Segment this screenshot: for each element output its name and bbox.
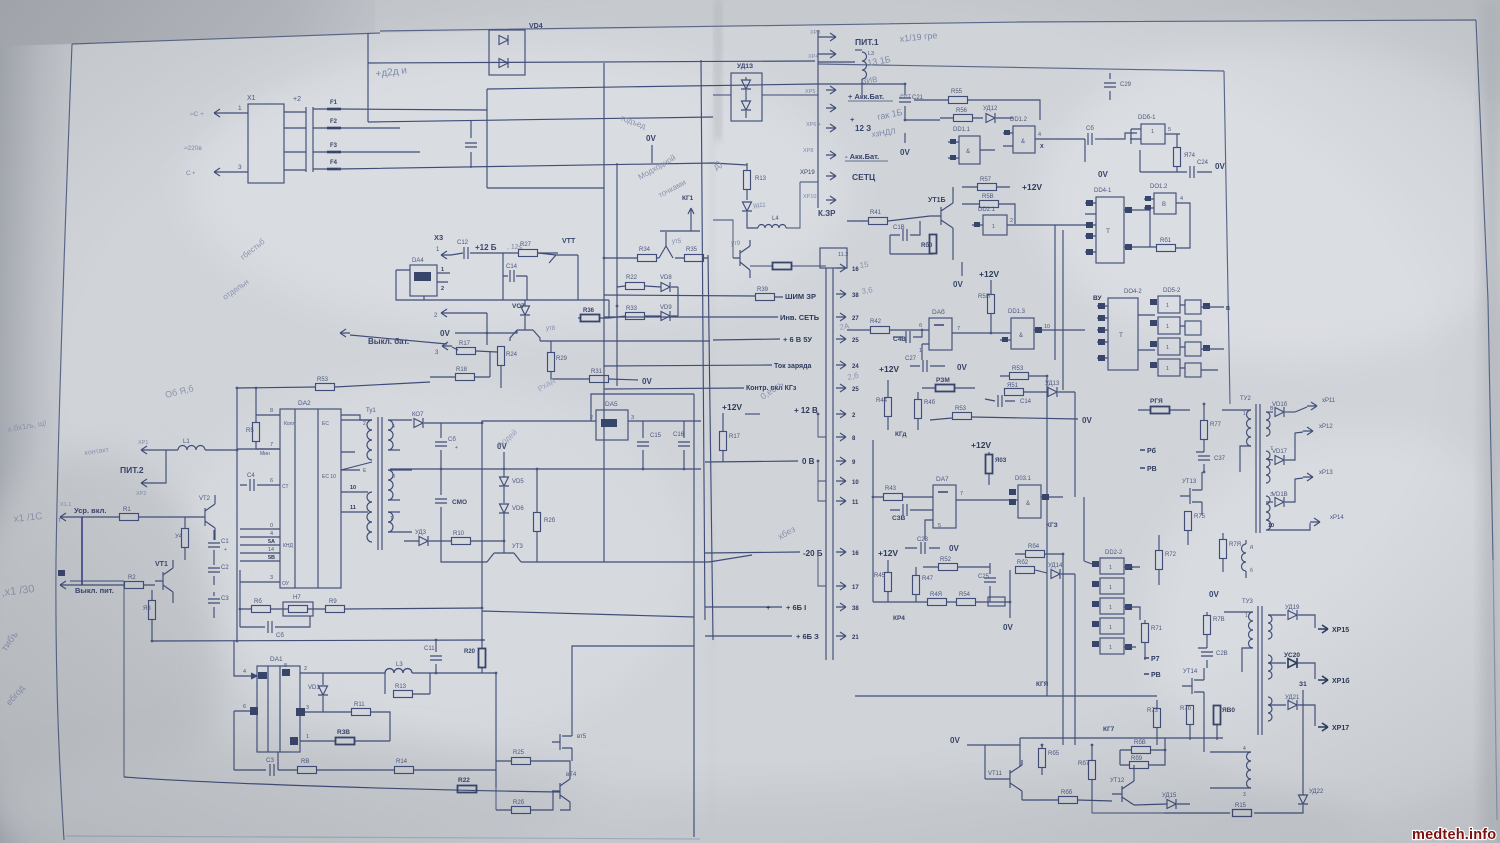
wire R27 to VT7 <box>538 252 558 254</box>
TV1 pin stubs <box>341 420 412 532</box>
transistor VT8 <box>510 330 540 341</box>
resistor R70 bold <box>1151 407 1170 414</box>
bus row +6V 5U <box>713 339 780 340</box>
wire +6V5U row from VT8 <box>540 340 710 342</box>
resistor R78 vertical <box>1204 616 1211 635</box>
wire R33 row <box>626 287 678 316</box>
arrow: X3 pin1 <box>441 251 451 259</box>
TV1 secondary winding <box>388 420 393 450</box>
fuse F3 <box>327 151 341 154</box>
resistor R79 vertical <box>1220 540 1227 559</box>
frame: left page top border <box>72 33 380 44</box>
PIT.2 arrows <box>141 446 151 454</box>
fuse F1 <box>327 108 341 111</box>
gate DD1.1 <box>959 136 980 164</box>
diode VD18 <box>1266 501 1273 503</box>
resistor R68 <box>1132 747 1151 754</box>
wire: second top rail left page <box>368 61 815 63</box>
resistor R52b <box>939 564 958 571</box>
resistor R49 <box>928 599 947 606</box>
transistor VT1 <box>155 560 173 603</box>
wire x124 vertical (Vykl to bottom) <box>70 581 124 777</box>
capacitor C16 <box>683 421 685 469</box>
capacitor C23 <box>905 547 940 549</box>
resistor R67 vertical <box>1089 761 1096 780</box>
arrow XP16 bold <box>1318 676 1328 684</box>
resistor R35 <box>685 255 704 262</box>
diode VD1 <box>318 686 328 695</box>
wire VT10 emitter <box>952 248 954 260</box>
wire DD6 loop <box>1131 129 1140 172</box>
arrow: input pin1 <box>214 109 224 117</box>
resistor R66 <box>1059 797 1078 804</box>
inductor L3 <box>385 669 412 674</box>
long bottom wire left page <box>124 777 560 792</box>
capacitor C25 <box>989 563 991 602</box>
resistor R44 vertical <box>885 398 892 417</box>
transistor VT2 <box>197 495 215 540</box>
capacitor C8 <box>440 423 442 469</box>
diode VD15 <box>1167 799 1176 809</box>
wire Usr vertical pair <box>81 517 83 585</box>
Vykl pit arrow <box>60 581 70 589</box>
wire: fuse bus double vertical <box>306 107 313 172</box>
wire R row <box>240 582 482 609</box>
resistor R61 <box>1157 245 1176 252</box>
resistor R41 <box>869 218 888 225</box>
diode VD16 <box>1266 411 1273 413</box>
capacitor C22 <box>1085 138 1105 140</box>
resistor R17 <box>457 348 476 355</box>
wire bottom bus y641 <box>152 640 485 641</box>
wire: X1 outputs to fuse bus <box>284 112 306 170</box>
wire C12 to R27 <box>470 252 518 254</box>
resistor R40 bold <box>773 263 792 270</box>
diode VD12 <box>986 113 995 123</box>
fuse F4 <box>327 168 341 171</box>
diode VD20 bold <box>1268 662 1286 664</box>
resistor R24 vertical <box>498 347 505 366</box>
gate DD1.2b <box>1154 193 1176 214</box>
gate DD1.2 <box>1013 126 1035 153</box>
arrow X3 pin2 <box>441 309 451 317</box>
IC DA5 <box>596 410 628 440</box>
resistor R52a <box>953 413 972 420</box>
capacitor C12 <box>464 247 468 259</box>
diode VD21 <box>1268 704 1286 706</box>
arrow row 586 <box>836 582 846 590</box>
diode VD3 <box>419 536 428 546</box>
resistor R20 bold vertical <box>479 649 486 668</box>
resistor R8 <box>298 767 317 774</box>
capacitor C15 <box>642 421 644 469</box>
wire vertical left col right page <box>872 440 874 602</box>
resistor R33 <box>626 313 645 320</box>
DA1 pin6 stub <box>234 711 257 741</box>
resistor R17 vertical on +12V stub <box>720 432 727 451</box>
inductor L4 <box>758 225 786 229</box>
wire verticals center right page <box>1047 376 1075 500</box>
transformer TV3 core <box>1258 606 1262 735</box>
frame: top rail across both pages <box>380 20 1476 31</box>
zener VD11 <box>742 202 752 211</box>
resistor R65 vertical <box>1039 749 1046 768</box>
DA2 pin 8 stub <box>256 414 280 416</box>
transistor VT11 <box>1000 760 1022 800</box>
resistor R64 <box>1026 551 1045 558</box>
wire row y738 <box>1020 737 1223 739</box>
capacitor C6 <box>240 616 310 627</box>
wire: long verticals center of left page <box>603 63 605 545</box>
diode VD6 <box>499 504 509 513</box>
arrow X3 pin3 <box>442 342 452 350</box>
resistor R5 vertical <box>253 423 260 442</box>
wire bottom area verticals <box>1020 500 1075 766</box>
resistor R32 <box>626 283 645 290</box>
TV3 primary winding <box>1249 612 1254 648</box>
resistor R40 (bold) <box>581 315 600 322</box>
opamp DA7 <box>933 485 956 528</box>
resistor R16 vertical <box>534 513 541 532</box>
capacitor C14 <box>510 270 514 282</box>
PIT.1 connector arrows <box>826 33 836 41</box>
DA1 pin3 row R11 <box>300 711 351 713</box>
resistor R74 vertical <box>1174 148 1181 167</box>
DA2 GND pin cluster <box>240 529 280 561</box>
bus row +6B II <box>705 635 792 637</box>
capacitor C35 <box>890 509 933 511</box>
wire row y300 <box>608 300 610 318</box>
capacitor C24 <box>1140 171 1212 173</box>
capacitor C2 <box>213 560 215 585</box>
resistor R34 <box>638 255 657 262</box>
capacitor C17 <box>985 399 1015 401</box>
resistor R21 with 0V <box>590 376 609 383</box>
resistor R18b <box>456 374 475 381</box>
TV2 pin10 out <box>1266 523 1310 530</box>
IC DA4 <box>410 265 437 296</box>
wire R40 row <box>578 316 626 318</box>
wires from DD2.1 out down <box>1055 225 1063 390</box>
node: vertical x503 <box>502 253 504 300</box>
capacitor C1 <box>213 530 215 560</box>
wire PIT.1 stubs <box>818 30 826 208</box>
mosfet VT14 <box>1182 668 1204 705</box>
arrow XP15 bold <box>1318 625 1328 633</box>
wire: vertical step joining top rails <box>367 33 369 122</box>
frame: right page inner box right edge <box>1224 71 1230 404</box>
transistor VT3 <box>487 548 521 562</box>
resistor R13b parallel <box>394 691 413 698</box>
wire: left page right border verticals <box>701 60 713 640</box>
wire: rail y89 from x487 to right page <box>487 84 815 89</box>
arrow XP13 <box>1285 478 1303 502</box>
wire x604 lower join <box>603 545 605 562</box>
inductor L1 <box>151 449 178 451</box>
thyristor VD22 <box>1298 795 1308 804</box>
bus row Kontr vkl KGz <box>604 388 744 389</box>
resistor R42 <box>871 327 890 334</box>
DA1 pin8 mark <box>282 669 290 676</box>
resistor R55 <box>949 97 968 104</box>
resistor R51a <box>1010 373 1029 380</box>
resistor R76 vertical <box>1187 706 1194 725</box>
DA1 pin4 arrow <box>234 641 249 676</box>
bus row Tok zaryada <box>604 365 772 366</box>
arrow XP12 <box>1285 432 1303 460</box>
mosfet VT13 <box>1180 472 1202 515</box>
arrow rows 481 501 <box>836 477 846 485</box>
wire DA5 out <box>628 420 701 422</box>
gate DD1.3 <box>1011 318 1034 349</box>
resistor R69 <box>1130 762 1149 769</box>
wire L1 to x237 <box>205 449 237 451</box>
arrow row 437 <box>836 433 846 441</box>
DA2 pin 6 ST with C4 <box>240 484 280 486</box>
resistor R31 bold <box>936 385 955 392</box>
svg-text:medteh.info: medteh.info <box>1412 827 1496 843</box>
resistors R6 R7 R9 row <box>252 606 271 613</box>
TV3 secondary windings <box>1268 615 1272 639</box>
TV1 primary winding <box>367 420 372 460</box>
diode VD14 <box>1051 569 1060 579</box>
resistor R58 <box>980 201 999 208</box>
arrow XP11 <box>1295 407 1307 412</box>
TV2 secondary windings <box>1266 412 1270 436</box>
bus row -20V <box>705 552 800 553</box>
resistor R15 <box>1233 810 1252 817</box>
wire row y258 with R34 R35 <box>604 257 708 259</box>
wire bottom long <box>1164 812 1293 814</box>
DA1 pin2 wire to L3 <box>300 672 385 674</box>
resistor R27 <box>519 250 538 257</box>
arrow XP17 bold <box>1318 723 1328 731</box>
resistor R10 <box>452 538 471 545</box>
resistor R2 <box>125 582 144 589</box>
resistor R59 vertical <box>988 295 995 314</box>
resistor R19 vertical (right of seam) <box>744 171 751 190</box>
diode VD4b <box>499 58 508 68</box>
zener VC7 <box>520 306 530 315</box>
wire: 0V long rail y168 <box>338 163 747 169</box>
diode VD17 <box>1266 459 1273 460</box>
DA1 pin1 row R38 <box>300 740 335 742</box>
diode VD7b top <box>414 418 423 428</box>
capacitor C27 <box>910 365 945 367</box>
gate DD2.1 <box>983 215 1007 235</box>
wire: X1 input pin 3 <box>224 171 248 173</box>
gate DD6-1 <box>1141 124 1165 144</box>
inductor L5 <box>855 49 862 51</box>
resistor R25 <box>512 758 531 765</box>
diode VD8 <box>661 282 670 292</box>
small choke under TV2 <box>1242 544 1247 571</box>
wire PIT2 lower arrow loop <box>151 450 166 483</box>
wire rail y84 to C21 <box>815 83 905 85</box>
wire DA4 pins <box>424 273 609 300</box>
wire from L3 node down-right <box>495 673 497 787</box>
wire misc bottom right <box>1092 800 1164 813</box>
frame: right page right border <box>1476 20 1493 560</box>
wire: fuse rows <box>313 109 487 169</box>
resistor R26b <box>512 807 531 814</box>
wire vertical x237 <box>236 388 238 642</box>
wire VD7 to DA5 <box>424 421 596 423</box>
gate DD3.1 <box>1018 485 1041 518</box>
frame: left page bottom edge (faint) <box>66 836 700 839</box>
resistor R51 <box>1005 389 1024 396</box>
resistor R47 vertical <box>913 576 920 595</box>
resistor R29 vertical <box>548 353 555 372</box>
pins 10 11 labels <box>341 492 368 512</box>
wire R32 row <box>617 286 678 287</box>
wire row y696 long <box>855 695 1157 697</box>
wire: vertical x487 <box>487 89 604 188</box>
bus row +6B I <box>705 606 782 608</box>
transistor VT6 <box>659 231 700 258</box>
dual diode VD19 box near seam <box>731 73 762 121</box>
wire DA4-1 outputs right <box>1149 210 1151 247</box>
resistor R11 <box>352 709 371 716</box>
IC DA4-1 <box>1096 197 1124 263</box>
resistor R45 vertical <box>885 573 892 592</box>
resistor R54 <box>957 599 976 606</box>
transformer TV2 core <box>1256 404 1260 533</box>
wire C22 to DD6 region <box>1105 133 1137 139</box>
label -Akk.Bat <box>826 151 836 159</box>
capacitor C28 <box>1198 648 1207 668</box>
capacitor C13 <box>465 143 477 147</box>
fuse F2 <box>327 127 341 130</box>
resistor R4 vertical <box>182 529 189 548</box>
capacitor C10 <box>440 469 442 541</box>
mosfet VT5 <box>552 723 572 761</box>
wire TV3 bottom winding <box>1203 705 1205 752</box>
DA2 right pins to TV1 <box>341 415 372 470</box>
wire: third rail y122 <box>368 117 713 122</box>
bus row 0 V <box>705 461 798 462</box>
capacitor C29 top <box>1109 73 1111 100</box>
IC DA1 <box>257 666 300 752</box>
transistor VT10 <box>930 187 953 248</box>
connector arrows battery rows <box>826 86 836 94</box>
wire DA1 bottom loop <box>277 752 279 770</box>
wire 0V bus y469 <box>390 468 701 470</box>
resistor R46 vertical <box>915 400 922 419</box>
capacitor C18 <box>890 221 920 235</box>
trimmer box after R54 <box>988 597 1005 606</box>
resistor R72 vertical <box>1156 551 1163 570</box>
wire verticals at 1084 <box>1084 497 1092 564</box>
arrow row 268 <box>836 264 846 272</box>
diode VD13 <box>1048 387 1057 397</box>
label SET <box>826 172 836 180</box>
resistor R103 bold vertical <box>986 455 993 474</box>
resistor R62 <box>1016 567 1035 574</box>
right page: capacitor C21 <box>905 84 940 120</box>
capacitor C20 gate output <box>1084 139 1086 162</box>
wire rail y387 with R53 <box>237 382 430 388</box>
resistor R73 vertical <box>1154 709 1161 728</box>
connector bus double vertical <box>826 268 833 660</box>
resistor R38 bold <box>336 738 355 745</box>
connector X1 <box>248 104 284 183</box>
diode VD5 <box>499 477 509 486</box>
bus row SHIM ZR <box>604 295 783 297</box>
DA2 pin 7 Min <box>237 448 280 450</box>
wire DA5 top loop <box>591 394 694 421</box>
diode VD9 <box>661 311 670 321</box>
wire K.ZR row into right page <box>713 220 733 258</box>
resistor R22 bold on bottom wire <box>458 786 477 793</box>
capacitor C11 <box>435 640 437 673</box>
resistor R60 bold vertical <box>930 235 937 254</box>
resistor R43 <box>884 494 903 501</box>
capacitor C3 <box>213 592 215 618</box>
arrow: input pin3 <box>214 168 224 176</box>
arrow XP14 <box>1310 518 1320 526</box>
resistor R80 bold vertical <box>1214 706 1221 725</box>
resistor R1 <box>120 514 139 521</box>
Usr vkl arrow <box>60 513 70 521</box>
resistor R14b <box>395 767 414 774</box>
wire X3 pin1 row <box>451 253 463 255</box>
wire VT5 drain up and right rail <box>572 394 694 837</box>
bus row INV SET <box>604 316 778 318</box>
bridge rectifier VD4 <box>489 30 525 75</box>
resistor R57 <box>978 184 997 191</box>
wire: X1 input pin 1 <box>224 112 248 114</box>
diode VD19b <box>741 101 751 110</box>
capacitor C19 <box>893 330 922 337</box>
transformer TV1 core <box>378 417 382 550</box>
wire vertical x482 <box>482 423 694 640</box>
wire R40 row <box>750 265 826 267</box>
IC DA2 <box>280 409 341 588</box>
bottom row C9 R8 <box>234 741 266 770</box>
wire VT3 row to right <box>521 555 752 562</box>
Выкл.бат arrow and label <box>340 329 350 337</box>
resistor R71 vertical <box>1142 624 1149 643</box>
wire X3 loop left of DA4 <box>396 270 424 300</box>
capacitor C37 <box>1196 452 1204 472</box>
resistor R77 vertical <box>1201 421 1208 440</box>
connector body top cell <box>820 248 847 268</box>
resistor R53 <box>316 384 335 391</box>
resistor R75 vertical <box>1185 512 1192 531</box>
node: cap stub at x471 <box>470 120 472 168</box>
transistor VT4 <box>552 779 570 802</box>
wire Выкл.бат row <box>350 335 447 344</box>
resistor R3 vertical <box>149 601 156 620</box>
wire PIT1 row2 <box>818 61 855 63</box>
frame: right page inner box top <box>818 64 1224 71</box>
resistor R56 <box>954 115 973 122</box>
diode VD19 <box>1268 614 1286 616</box>
IC DA4-2 <box>1108 298 1138 370</box>
diode VD19a <box>741 80 751 89</box>
diode VD4a <box>499 35 508 45</box>
DA2 pin 3 OU <box>240 570 280 582</box>
TV2 primary winding <box>1247 410 1252 446</box>
resistor R39 <box>756 294 775 301</box>
frame: left page left border <box>56 44 72 840</box>
opamp DA6 <box>929 318 952 350</box>
transistor VT9 <box>733 240 750 278</box>
transistor VT12 <box>1112 781 1134 805</box>
